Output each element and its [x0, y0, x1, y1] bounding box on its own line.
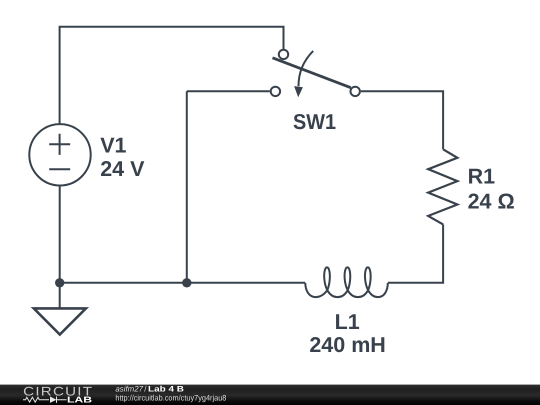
- svg-text:L1: L1: [335, 310, 360, 334]
- svg-text:http://circuitlab.com/ctuy7yg4: http://circuitlab.com/ctuy7yg4rjau8: [115, 394, 226, 403]
- wire: left switch branch vertical: [186, 91, 188, 282]
- switch SW1 terminal: left throw: [271, 87, 280, 96]
- voltage source V1: [29, 124, 90, 185]
- svg-text:asifm27: asifm27: [115, 385, 143, 394]
- wire: V1 bottom to ground node: [59, 186, 61, 283]
- svg-text:24 Ω: 24 Ω: [468, 190, 515, 214]
- wire: bottom rail: [60, 282, 306, 284]
- switch SW1 motion arrow arc: [298, 51, 313, 86]
- CircuitLab logo: resistor-diode glyph: [23, 397, 67, 403]
- resistor R1: [428, 149, 457, 224]
- inductor L1: [305, 267, 388, 297]
- svg-text:LAB: LAB: [67, 395, 92, 405]
- V1 plus sign: [49, 134, 70, 155]
- wire: switch right to resistor: [361, 91, 443, 149]
- switch SW1 blade: [273, 58, 351, 88]
- junction dot at switch branch node: [182, 278, 191, 287]
- wire top: V1 top to switch common: [60, 27, 284, 124]
- switch SW1 terminal: common (top): [279, 50, 288, 59]
- switch SW1 terminal: right throw: [351, 87, 360, 96]
- footer bar: [0, 385, 540, 405]
- svg-text:24 V: 24 V: [100, 157, 145, 181]
- wire: resistor bottom to inductor right: [388, 224, 443, 282]
- ground: [59, 283, 61, 308]
- svg-text:R1: R1: [468, 164, 496, 188]
- svg-text:SW1: SW1: [293, 110, 336, 134]
- svg-text:240 mH: 240 mH: [309, 333, 386, 357]
- svg-text:Lab 4 B: Lab 4 B: [148, 385, 184, 394]
- V1 minus sign: [49, 168, 70, 170]
- svg-text:V1: V1: [100, 133, 126, 157]
- junction dot at V1 bottom node: [55, 278, 64, 287]
- switch SW1 motion arrowhead: [294, 86, 303, 97]
- wire: left switch branch horizontal: [187, 90, 270, 92]
